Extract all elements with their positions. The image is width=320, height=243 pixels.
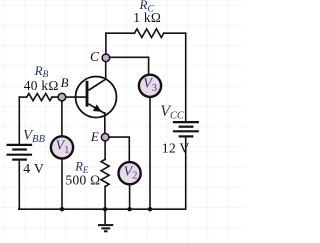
resistor R_E zigzag (101, 159, 109, 186)
svg-text:E: E (90, 129, 99, 144)
transistor collector diagonal (88, 79, 105, 90)
junction dot R_E-rail (103, 207, 107, 211)
resistor R_C zigzag (135, 29, 164, 38)
node C (102, 54, 110, 62)
transistor emitter arrowhead (93, 105, 101, 112)
wire: base row left lead to R_B (19, 96, 26, 98)
wire: base row from R_B through node B to transistor base (52, 96, 86, 98)
wire: emitter vertical from transistor down to node E (104, 113, 106, 137)
node E (101, 133, 109, 141)
transistor base bar (86, 81, 89, 107)
wire: voltmeter V1 down to rail (61, 159, 63, 210)
junction dot V1-rail (60, 207, 64, 211)
wire: node E row to voltmeter V2 corner (105, 137, 129, 161)
node B (58, 93, 66, 101)
svg-text:12 V: 12 V (162, 140, 190, 155)
wire: node E down to resistor R_E (104, 137, 106, 159)
wire: R_E bottom to rail (104, 187, 106, 210)
wire: node C row to voltmeter V3 corner (106, 57, 149, 75)
svg-text:500 Ω: 500 Ω (66, 173, 101, 188)
wire: bottom ground rail (19, 208, 186, 210)
wire: top-left vertical from R_C row down to node C (105, 33, 107, 58)
wire: voltmeter V2 down to rail (129, 185, 131, 209)
svg-text:4 V: 4 V (23, 161, 44, 176)
transistor emitter diagonal (88, 104, 104, 114)
wire: left column from V_BB battery top up to base row (18, 97, 20, 144)
wire: right column from V_CC battery bottom to ground rail (185, 137, 187, 209)
wire: top horizontal right lead from R_C to right column (164, 32, 186, 34)
wire: collector vertical from node C down into transistor (105, 58, 107, 79)
transistor body circle (76, 77, 117, 118)
svg-text:B: B (61, 75, 69, 90)
junction dot V2-rail (127, 207, 131, 211)
svg-text:C: C (90, 49, 100, 64)
ground (98, 209, 113, 231)
transistor Q1 (76, 77, 117, 118)
wire: node B down to voltmeter V1 (61, 97, 63, 136)
junction dot V3-rail (148, 207, 152, 211)
svg-text:40 kΩ: 40 kΩ (24, 78, 59, 93)
wire: voltmeter V3 down to rail (149, 97, 151, 209)
battery V_BB (7, 145, 33, 160)
voltmeter V2 (119, 162, 141, 184)
wire: right column down to V_CC battery top (185, 33, 187, 121)
battery V_CC (173, 122, 199, 136)
wire: left column from rail up to V_BB battery bottom (18, 161, 20, 210)
voltmeter V3 (139, 75, 161, 97)
voltmeter V1 (51, 136, 73, 158)
svg-text:1 kΩ: 1 kΩ (133, 10, 161, 25)
faint grid (0, 0, 245, 243)
resistor R_B zigzag (27, 94, 52, 101)
wire: top horizontal left lead to R_C (106, 32, 135, 34)
